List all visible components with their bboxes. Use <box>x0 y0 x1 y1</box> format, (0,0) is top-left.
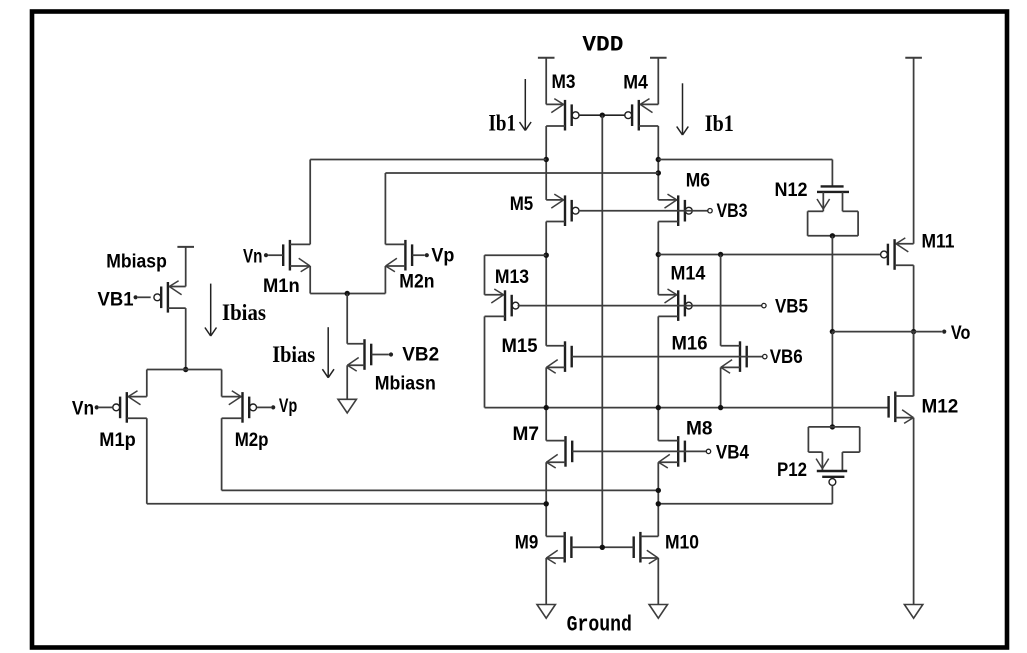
wire M11 drain to Vo <box>913 265 915 396</box>
wire M10 source to ground <box>657 558 659 605</box>
wire Vo to P12 <box>831 332 833 427</box>
ground right rail <box>904 605 922 619</box>
wire M3 drain to node A <box>545 126 547 200</box>
node M11 gate junction <box>656 252 661 257</box>
svg-text:Ground: Ground <box>567 612 632 638</box>
svg-text:M12: M12 <box>922 397 959 418</box>
node C <box>656 157 661 162</box>
transistor M2n <box>385 240 434 293</box>
node Vo junction right <box>911 329 916 334</box>
wire M2p drain down <box>221 418 223 490</box>
wire M16 source to row <box>720 367 722 407</box>
node VB1 <box>98 290 151 311</box>
wire A from M1n drain <box>310 160 546 245</box>
svg-text:M13: M13 <box>495 267 529 288</box>
wire C to N12 <box>658 160 832 187</box>
VDD T-bar right <box>650 58 667 105</box>
node row-left <box>544 405 549 410</box>
ground Mbiasn <box>338 399 356 413</box>
svg-text:Mbiasn: Mbiasn <box>375 374 436 395</box>
svg-text:VB5: VB5 <box>775 296 808 317</box>
node N12 plate <box>830 233 835 238</box>
wire M15 source to M7 drain <box>545 367 547 440</box>
svg-text:M14: M14 <box>671 264 706 285</box>
node M9-M10 gate junction <box>600 545 605 550</box>
wire M2n source down <box>384 266 386 294</box>
node VB6 <box>763 347 803 368</box>
wire M5-M6 gate line <box>579 210 708 212</box>
svg-text:M9: M9 <box>515 533 539 554</box>
svg-text:Ibias: Ibias <box>272 342 315 367</box>
node M1n-M2n tail <box>345 291 350 296</box>
svg-text:M3: M3 <box>552 72 576 93</box>
svg-text:M7: M7 <box>513 424 540 445</box>
node Vp input M2p <box>257 396 297 417</box>
wire M7 source to M9 drain <box>545 462 547 536</box>
transistor M5 <box>510 194 579 226</box>
node L2a end <box>544 501 549 506</box>
transistor M1n <box>263 240 310 297</box>
node Vp input M2n <box>412 246 454 267</box>
wire M1n-M2n tail rail <box>310 293 385 295</box>
wire Vo <box>832 331 942 333</box>
wire VB4 gate line <box>572 450 706 452</box>
transistor M10 <box>634 532 699 564</box>
svg-text:Ib1: Ib1 <box>489 111 517 136</box>
node B <box>656 170 661 175</box>
svg-text:M2p: M2p <box>235 430 269 451</box>
transistor M9 <box>515 532 572 564</box>
svg-text:M10: M10 <box>665 533 699 554</box>
svg-text:M15: M15 <box>502 336 538 357</box>
wire VB6 gate line <box>572 356 763 358</box>
ground M9 <box>537 605 555 619</box>
svg-text:Ibias: Ibias <box>222 300 266 325</box>
node row-mid <box>656 405 661 410</box>
transistor Mbiasn <box>347 339 436 394</box>
current arrow Ibias 1 <box>205 284 266 336</box>
node VB2 <box>371 345 439 366</box>
svg-text:VB3: VB3 <box>717 201 748 222</box>
svg-text:VB4: VB4 <box>716 443 749 464</box>
VDD T-bar left <box>538 58 555 105</box>
svg-text:M4: M4 <box>623 73 648 94</box>
wire M5 drain to M15 drain <box>545 222 547 346</box>
wire tail to Mbiasn drain <box>346 294 348 344</box>
wire N12 plate to Vo <box>831 236 833 332</box>
ground M10 <box>649 605 667 619</box>
transistor M12 <box>889 392 959 424</box>
svg-text:VB6: VB6 <box>770 347 803 368</box>
wire M14 drain to M8 drain <box>657 316 659 440</box>
transistor Mbiasp <box>106 252 185 313</box>
svg-text:Vo: Vo <box>951 323 971 344</box>
current arrow Ibias 2 <box>272 327 334 378</box>
node VB3 <box>708 201 748 222</box>
svg-text:M16: M16 <box>672 333 708 354</box>
node VB5 <box>762 296 809 317</box>
wire Mbiasp drain to tail <box>185 308 187 369</box>
wire M4 drain to node B <box>657 126 659 200</box>
wire B from M2n drain <box>385 173 658 244</box>
node M13 source junction <box>544 253 549 258</box>
svg-text:Vn: Vn <box>72 399 94 420</box>
wire M13 source link <box>485 255 547 295</box>
current arrow Ib1 left <box>489 79 532 136</box>
transistor M6 <box>658 170 710 226</box>
svg-text:Mbiasp: Mbiasp <box>106 252 167 273</box>
svg-text:M8: M8 <box>686 419 713 440</box>
wire M12 gate row <box>485 316 889 407</box>
node M16 drain junction <box>718 252 723 257</box>
wire M8 source to M10 drain <box>657 462 659 536</box>
svg-text:P12: P12 <box>777 460 807 481</box>
node Vo junction left <box>830 329 835 334</box>
node VB4 <box>706 443 749 464</box>
node L1 end <box>656 488 661 493</box>
wire M6 drain to M14 source <box>657 222 659 295</box>
transistor M3 <box>546 72 579 131</box>
transistor M14 <box>658 264 705 321</box>
wire M12 source to ground <box>913 418 915 605</box>
node row-right <box>718 405 723 410</box>
VDD T-bar far right <box>905 58 922 244</box>
transistor M13 <box>485 267 530 321</box>
wire M9 source to ground <box>545 558 547 605</box>
svg-text:Vp: Vp <box>279 396 297 417</box>
node Vn input M1p <box>72 399 113 420</box>
wire M3-M4 gates <box>579 114 625 116</box>
wire M9-M10 gate link <box>571 546 633 548</box>
svg-text:M6: M6 <box>686 170 710 191</box>
wire M1p-M2p tail rail <box>147 370 222 397</box>
wire L2a M1p drain to M7 source <box>147 503 546 505</box>
transistor M4 <box>623 73 658 131</box>
wire M1p drain down <box>146 418 148 504</box>
svg-text:Ib1: Ib1 <box>705 111 734 136</box>
wire M1n source down <box>309 266 311 294</box>
capacitor P12 (PMOS) <box>777 427 860 504</box>
wire M12 drain to Vo <box>913 332 915 396</box>
svg-text:M5: M5 <box>510 194 534 215</box>
node P12 plate <box>830 424 835 429</box>
transistor M1p <box>99 391 147 451</box>
node A <box>544 157 549 162</box>
current arrow Ib1 right <box>677 83 734 136</box>
svg-text:M1p: M1p <box>99 430 135 451</box>
node Vo terminal <box>942 323 970 344</box>
svg-text:M11: M11 <box>922 232 955 253</box>
svg-text:M1n: M1n <box>263 276 300 297</box>
wire VB5 gate line <box>518 305 762 307</box>
transistor M2p <box>222 391 269 451</box>
wire L1 M2p drain to M8 source <box>222 489 659 491</box>
wire M16 drain column <box>720 255 722 346</box>
Ground label <box>567 612 632 638</box>
svg-text:M2n: M2n <box>399 271 434 292</box>
transistor M11 <box>881 232 955 270</box>
svg-text:Vp: Vp <box>431 246 454 267</box>
svg-text:VB2: VB2 <box>402 345 439 366</box>
wire center column <box>601 115 603 547</box>
VDD label <box>582 31 623 57</box>
svg-text:VB1: VB1 <box>98 290 134 311</box>
svg-text:VDD: VDD <box>582 31 623 57</box>
transistor M15 <box>502 336 572 373</box>
node M3-M4 gate junction <box>600 113 605 118</box>
node M1p-M2p tail <box>183 367 188 372</box>
transistor M8 <box>658 419 712 469</box>
VDD T-bar Mbiasp <box>177 247 194 287</box>
node Vn input M1n <box>243 247 283 268</box>
capacitor N12 (NMOS) <box>775 180 859 236</box>
svg-text:Vn: Vn <box>243 247 263 268</box>
wire M11 gate line <box>658 254 880 256</box>
transistor M16 <box>672 333 747 373</box>
node L2b start <box>656 501 661 506</box>
transistor M7 <box>513 424 573 468</box>
wire Mbiasn source to ground <box>346 365 348 399</box>
svg-text:N12: N12 <box>775 180 808 201</box>
wire L2b to P12 gate <box>658 503 832 505</box>
